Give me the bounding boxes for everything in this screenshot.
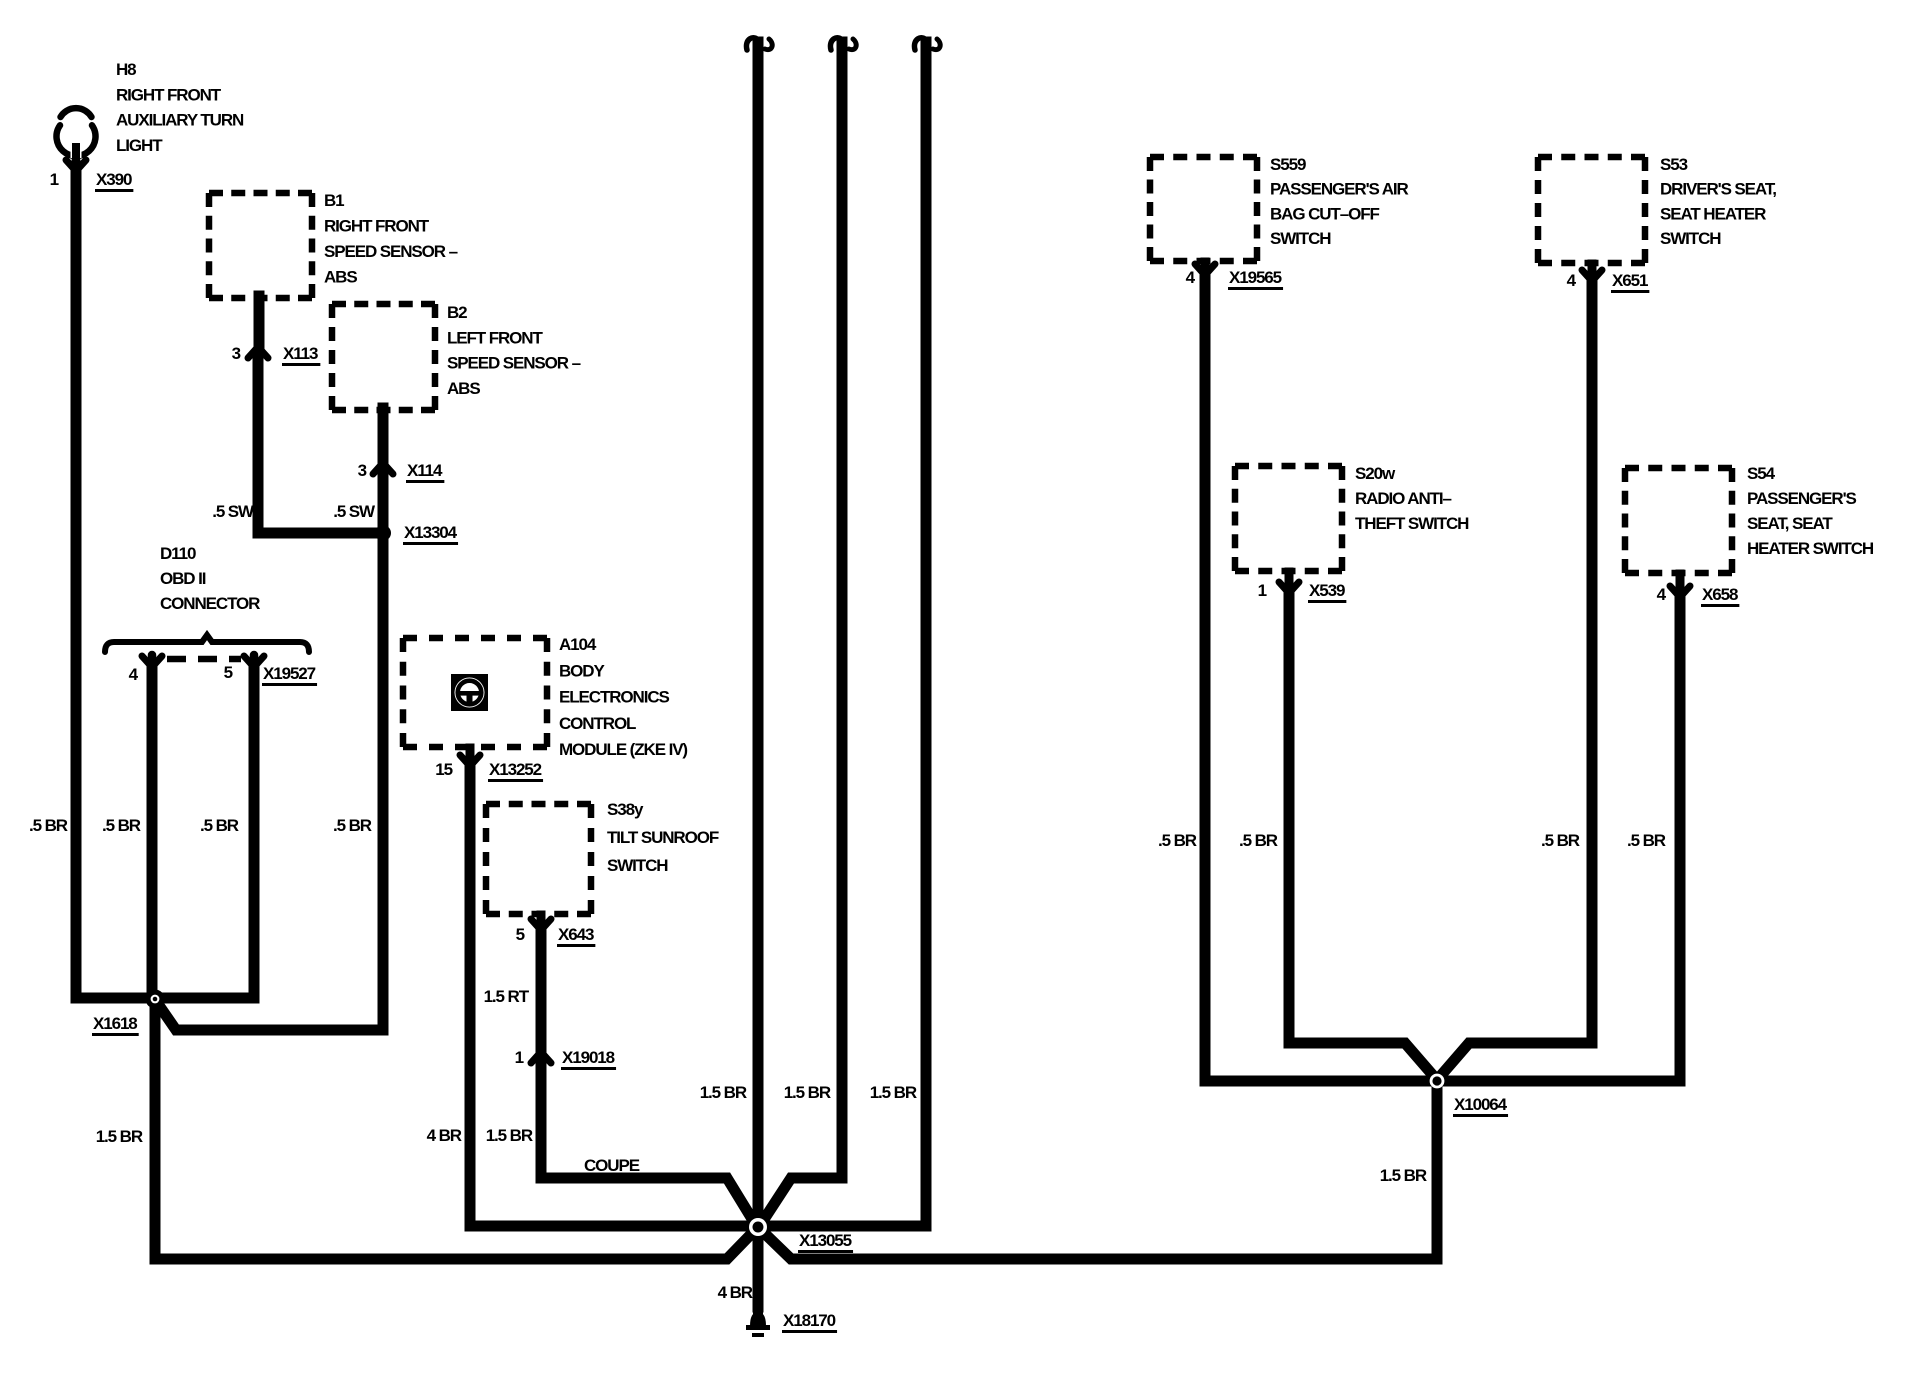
svg-text:X1618: X1618 bbox=[93, 1014, 137, 1033]
label X651 bbox=[1611, 271, 1649, 293]
svg-text:.5 BR: .5 BR bbox=[200, 816, 239, 835]
label X19527 bbox=[262, 664, 317, 686]
svg-text:X13055: X13055 bbox=[799, 1231, 852, 1250]
svg-text:S54: S54 bbox=[1747, 464, 1776, 483]
svg-text:CONNECTOR: CONNECTOR bbox=[160, 594, 260, 613]
svg-text:B2: B2 bbox=[447, 303, 467, 322]
svg-text:1: 1 bbox=[515, 1048, 524, 1067]
svg-text:4 BR: 4 BR bbox=[718, 1283, 753, 1302]
svg-text:X651: X651 bbox=[1612, 271, 1648, 290]
pin 5 at X19527 bbox=[224, 663, 233, 682]
label X643 bbox=[557, 925, 595, 947]
svg-text:X539: X539 bbox=[1309, 581, 1345, 600]
label D110 block bbox=[160, 544, 260, 613]
connector X19527 pin5 bbox=[244, 655, 264, 666]
svg-text:CONTROL: CONTROL bbox=[559, 714, 636, 733]
pin 3 at X114 bbox=[358, 461, 367, 480]
connector X658 pin4 bbox=[1670, 574, 1690, 596]
label 1.5 RT bbox=[484, 987, 530, 1006]
connector X539 pin1 bbox=[1279, 572, 1299, 592]
svg-text:.5 BR: .5 BR bbox=[29, 816, 68, 835]
svg-text:S20w: S20w bbox=[1355, 464, 1396, 483]
svg-text:1: 1 bbox=[1258, 581, 1267, 600]
svg-text:X13304: X13304 bbox=[404, 523, 458, 542]
svg-text:ABS: ABS bbox=[447, 379, 480, 398]
label 1.5 BR (line1) bbox=[700, 1083, 747, 1102]
label X658 bbox=[1701, 585, 1739, 607]
wire A104 pin15 / X13252 to X13055 (4 BR) bbox=[470, 770, 752, 1226]
svg-text:.5 SW: .5 SW bbox=[333, 502, 376, 521]
hook wire3 top bbox=[914, 38, 940, 50]
connector X19018 pin1 bbox=[531, 1053, 551, 1066]
svg-text:D110: D110 bbox=[160, 544, 196, 563]
wire X19018 to X13055 COUPE (1.5 BR) bbox=[541, 1066, 757, 1227]
label X18170 bbox=[782, 1311, 837, 1333]
label X114 bbox=[406, 461, 444, 483]
label .5 BR (S20w wire) bbox=[1239, 831, 1278, 850]
label X10064 bbox=[1453, 1095, 1508, 1117]
svg-text:1.5 BR: 1.5 BR bbox=[870, 1083, 917, 1102]
svg-text:.5 BR: .5 BR bbox=[1627, 831, 1666, 850]
label X539 bbox=[1308, 581, 1346, 603]
svg-text:A104: A104 bbox=[559, 635, 597, 654]
component box S53 driver seat heater switch bbox=[1538, 157, 1645, 263]
label A104 block bbox=[559, 635, 687, 759]
pin 1 at X390 bbox=[50, 170, 59, 189]
ground symbol X18170 bbox=[746, 1300, 770, 1337]
svg-text:B1: B1 bbox=[324, 191, 344, 210]
component box A104 body electronics control module bbox=[403, 638, 547, 747]
hook wire2 top bbox=[830, 38, 856, 50]
svg-text:SWITCH: SWITCH bbox=[1270, 229, 1331, 248]
svg-text:X10064: X10064 bbox=[1454, 1095, 1508, 1114]
label X113 bbox=[282, 344, 320, 366]
svg-text:1.5 BR: 1.5 BR bbox=[700, 1083, 747, 1102]
svg-text:PASSENGER'S AIR: PASSENGER'S AIR bbox=[1270, 180, 1409, 199]
svg-text:.5 BR: .5 BR bbox=[1541, 831, 1580, 850]
label X13055 bbox=[798, 1231, 853, 1253]
label 1.5 BR (X19018 wire) bbox=[486, 1126, 533, 1145]
connector X390 pin1 bbox=[66, 159, 86, 170]
label COUPE bbox=[584, 1156, 640, 1175]
label .5 BR (pin5 wire) bbox=[200, 816, 239, 835]
svg-text:3: 3 bbox=[358, 461, 367, 480]
label .5 SW right bbox=[333, 502, 376, 521]
label .5 BR (X114 wire) bbox=[333, 816, 372, 835]
svg-text:X19527: X19527 bbox=[263, 664, 316, 683]
svg-text:S559: S559 bbox=[1270, 155, 1306, 174]
svg-text:5: 5 bbox=[224, 663, 233, 682]
label 1.5 BR (X1618 wire) bbox=[96, 1127, 143, 1146]
svg-text:BAG CUT–OFF: BAG CUT–OFF bbox=[1270, 204, 1380, 223]
wire center line 3 (1.5 BR) bbox=[764, 42, 926, 1226]
label 4 BR (X13252 wire) bbox=[427, 1126, 462, 1145]
label S38y block bbox=[607, 800, 719, 875]
svg-text:SPEED SENSOR –: SPEED SENSOR – bbox=[447, 354, 581, 373]
svg-text:5: 5 bbox=[516, 925, 525, 944]
svg-text:S38y: S38y bbox=[607, 800, 644, 819]
label 1.5 BR (line2) bbox=[784, 1083, 831, 1102]
pin 4 at X19565 bbox=[1186, 268, 1196, 287]
svg-text:COUPE: COUPE bbox=[584, 1156, 640, 1175]
svg-text:BODY: BODY bbox=[559, 661, 605, 680]
svg-text:DRIVER'S SEAT,: DRIVER'S SEAT, bbox=[1660, 180, 1776, 199]
svg-text:X114: X114 bbox=[407, 461, 443, 480]
svg-text:.5 BR: .5 BR bbox=[102, 816, 141, 835]
wire H8 pin1 to X1618 (.5 BR) bbox=[76, 166, 150, 998]
svg-text:.5 SW: .5 SW bbox=[212, 502, 255, 521]
pin 1 at X19018 bbox=[515, 1048, 524, 1067]
label 1.5 BR (X10064 wire) bbox=[1380, 1166, 1427, 1185]
svg-text:.5 BR: .5 BR bbox=[333, 816, 372, 835]
svg-text:1.5 RT: 1.5 RT bbox=[484, 987, 530, 1006]
connector X651 pin4 bbox=[1582, 264, 1602, 280]
svg-text:1: 1 bbox=[50, 170, 59, 189]
wire S20w pin1 / X539 to X10064 (.5 BR) bbox=[1289, 594, 1437, 1080]
wire D110 pin5 to X1618 (.5 BR) bbox=[160, 666, 254, 998]
dashed link between D110 pins bbox=[167, 656, 241, 663]
junction X13304 bbox=[375, 525, 391, 541]
svg-text:ABS: ABS bbox=[324, 268, 357, 287]
svg-text:1.5 BR: 1.5 BR bbox=[486, 1126, 533, 1145]
svg-text:X19018: X19018 bbox=[562, 1048, 615, 1067]
svg-text:X658: X658 bbox=[1702, 585, 1738, 604]
wire X113 to junction X13304 (.5 SW) bbox=[258, 360, 380, 533]
label X19018 bbox=[561, 1048, 616, 1070]
svg-text:.5 BR: .5 BR bbox=[1158, 831, 1197, 850]
svg-text:1.5 BR: 1.5 BR bbox=[784, 1083, 831, 1102]
svg-text:LIGHT: LIGHT bbox=[116, 136, 163, 155]
pin 5 at X643 bbox=[516, 925, 525, 944]
label 1.5 BR (line3) bbox=[870, 1083, 917, 1102]
pin 4 at X658 bbox=[1657, 585, 1667, 604]
svg-text:LEFT FRONT: LEFT FRONT bbox=[447, 328, 543, 347]
svg-text:AUXILIARY TURN: AUXILIARY TURN bbox=[116, 111, 244, 130]
label X390 bbox=[95, 170, 133, 192]
svg-text:X13252: X13252 bbox=[489, 760, 542, 779]
label .5 BR (S53 wire) bbox=[1541, 831, 1580, 850]
wire center line 1 (1.5 BR) top to ground bbox=[753, 42, 764, 1307]
label .5 BR (S559 wire) bbox=[1158, 831, 1197, 850]
icon steering wheel ZKE bbox=[451, 674, 488, 711]
svg-text:X18170: X18170 bbox=[783, 1311, 836, 1330]
svg-text:1.5 BR: 1.5 BR bbox=[1380, 1166, 1427, 1185]
connector X19565 pin4 bbox=[1195, 262, 1215, 274]
wire X13055 to X10064 (1.5 BR) bbox=[759, 1085, 1437, 1259]
svg-text:RIGHT FRONT: RIGHT FRONT bbox=[116, 85, 222, 104]
component box B1 right front speed sensor ABS bbox=[209, 193, 312, 298]
svg-text:MODULE (ZKE IV): MODULE (ZKE IV) bbox=[559, 740, 687, 759]
pin 15 at X13252 bbox=[435, 760, 452, 779]
svg-text:HEATER SWITCH: HEATER SWITCH bbox=[1747, 539, 1874, 558]
bracket D110 OBD II connector bbox=[105, 635, 309, 652]
wire S38y pin5 X643 to X19018 (1.5 RT) bbox=[536, 930, 547, 1054]
label X19565 bbox=[1228, 268, 1283, 290]
wire X114 through X13304 to X1618 (.5 BR) bbox=[156, 477, 383, 1030]
label .5 BR (S54 wire) bbox=[1627, 831, 1666, 850]
label X13304 bbox=[403, 523, 458, 545]
label X1618 bbox=[92, 1014, 139, 1036]
svg-text:X390: X390 bbox=[96, 170, 132, 189]
svg-text:1.5 BR: 1.5 BR bbox=[96, 1127, 143, 1146]
svg-text:SEAT, SEAT: SEAT, SEAT bbox=[1747, 514, 1833, 533]
label B1 block bbox=[324, 191, 458, 287]
pin 1 at X539 bbox=[1258, 581, 1267, 600]
pin 3 at X113 bbox=[232, 344, 241, 363]
pin 4 at X19527 bbox=[129, 665, 139, 684]
wire S54 pin4 / X658 to X10064 (.5 BR) bbox=[1442, 598, 1680, 1081]
svg-text:X113: X113 bbox=[283, 344, 318, 363]
label H8 block bbox=[116, 60, 244, 155]
svg-text:.5 BR: .5 BR bbox=[1239, 831, 1278, 850]
label S20w block bbox=[1355, 464, 1469, 533]
svg-text:X19565: X19565 bbox=[1229, 268, 1282, 287]
component box S20w radio anti-theft switch bbox=[1235, 466, 1342, 571]
wire center line 2 (1.5 BR) bbox=[759, 42, 842, 1227]
svg-text:S53: S53 bbox=[1660, 155, 1688, 174]
label X13252 bbox=[488, 760, 543, 782]
pin 4 at X651 bbox=[1567, 271, 1577, 290]
component box S38y tilt sunroof switch bbox=[486, 804, 591, 914]
component box S559 passenger airbag cut-off switch bbox=[1150, 157, 1257, 261]
label B2 block bbox=[447, 303, 581, 398]
svg-text:SWITCH: SWITCH bbox=[607, 856, 668, 875]
svg-text:X643: X643 bbox=[558, 925, 594, 944]
svg-text:3: 3 bbox=[232, 344, 241, 363]
label .5 BR (pin4 wire) bbox=[102, 816, 141, 835]
label S54 block bbox=[1747, 464, 1874, 558]
component box S54 passenger seat heater switch bbox=[1625, 468, 1732, 573]
connector X643 pin5 bbox=[531, 915, 551, 929]
connector X114 pin3 bbox=[373, 464, 393, 477]
wire S559 pin4 / X19565 to X10064 (.5 BR) bbox=[1205, 276, 1432, 1081]
svg-text:SEAT HEATER: SEAT HEATER bbox=[1660, 204, 1766, 223]
lamp H8 right front auxiliary turn light bbox=[57, 108, 96, 164]
label S559 block bbox=[1270, 155, 1409, 248]
wire X1618 to junction X13055 (1.5 BR) bbox=[155, 1002, 757, 1259]
svg-text:ELECTRONICS: ELECTRONICS bbox=[559, 688, 670, 707]
connector X113 pin3 bbox=[248, 348, 268, 361]
svg-text:THEFT SWITCH: THEFT SWITCH bbox=[1355, 514, 1469, 533]
wire D110 pin4 to X1618 (.5 BR) bbox=[147, 666, 158, 995]
junction X13055 bbox=[745, 1214, 771, 1240]
wire S53 pin4 / X651 to X10064 (.5 BR) bbox=[1437, 282, 1592, 1080]
wire B2 pin3 to connector X114 (.5 SW) bbox=[378, 408, 389, 466]
label 4 BR (ground wire) bbox=[718, 1283, 753, 1302]
svg-text:H8: H8 bbox=[116, 60, 136, 79]
connector X13252 pin15 bbox=[460, 748, 480, 765]
svg-text:SPEED SENSOR –: SPEED SENSOR – bbox=[324, 242, 458, 261]
svg-text:OBD II: OBD II bbox=[160, 569, 206, 588]
label .5 SW left bbox=[212, 502, 255, 521]
wire B1 pin3 to connector X113 (.5 SW) bbox=[254, 296, 265, 350]
svg-text:SWITCH: SWITCH bbox=[1660, 229, 1721, 248]
svg-text:TILT SUNROOF: TILT SUNROOF bbox=[607, 828, 719, 847]
label .5 BR (H8 wire) bbox=[29, 816, 68, 835]
svg-text:RADIO ANTI–: RADIO ANTI– bbox=[1355, 489, 1452, 508]
component box B2 left front speed sensor ABS bbox=[332, 304, 435, 410]
hook wire1 top bbox=[746, 38, 772, 50]
svg-text:4 BR: 4 BR bbox=[427, 1126, 462, 1145]
svg-text:15: 15 bbox=[435, 760, 452, 779]
svg-text:PASSENGER'S: PASSENGER'S bbox=[1747, 489, 1857, 508]
junction X1618 bbox=[146, 990, 165, 1009]
svg-text:RIGHT FRONT: RIGHT FRONT bbox=[324, 217, 430, 236]
label S53 block bbox=[1660, 155, 1776, 248]
connector X19527 pin4 bbox=[142, 655, 162, 666]
junction X10064 bbox=[1430, 1074, 1445, 1089]
